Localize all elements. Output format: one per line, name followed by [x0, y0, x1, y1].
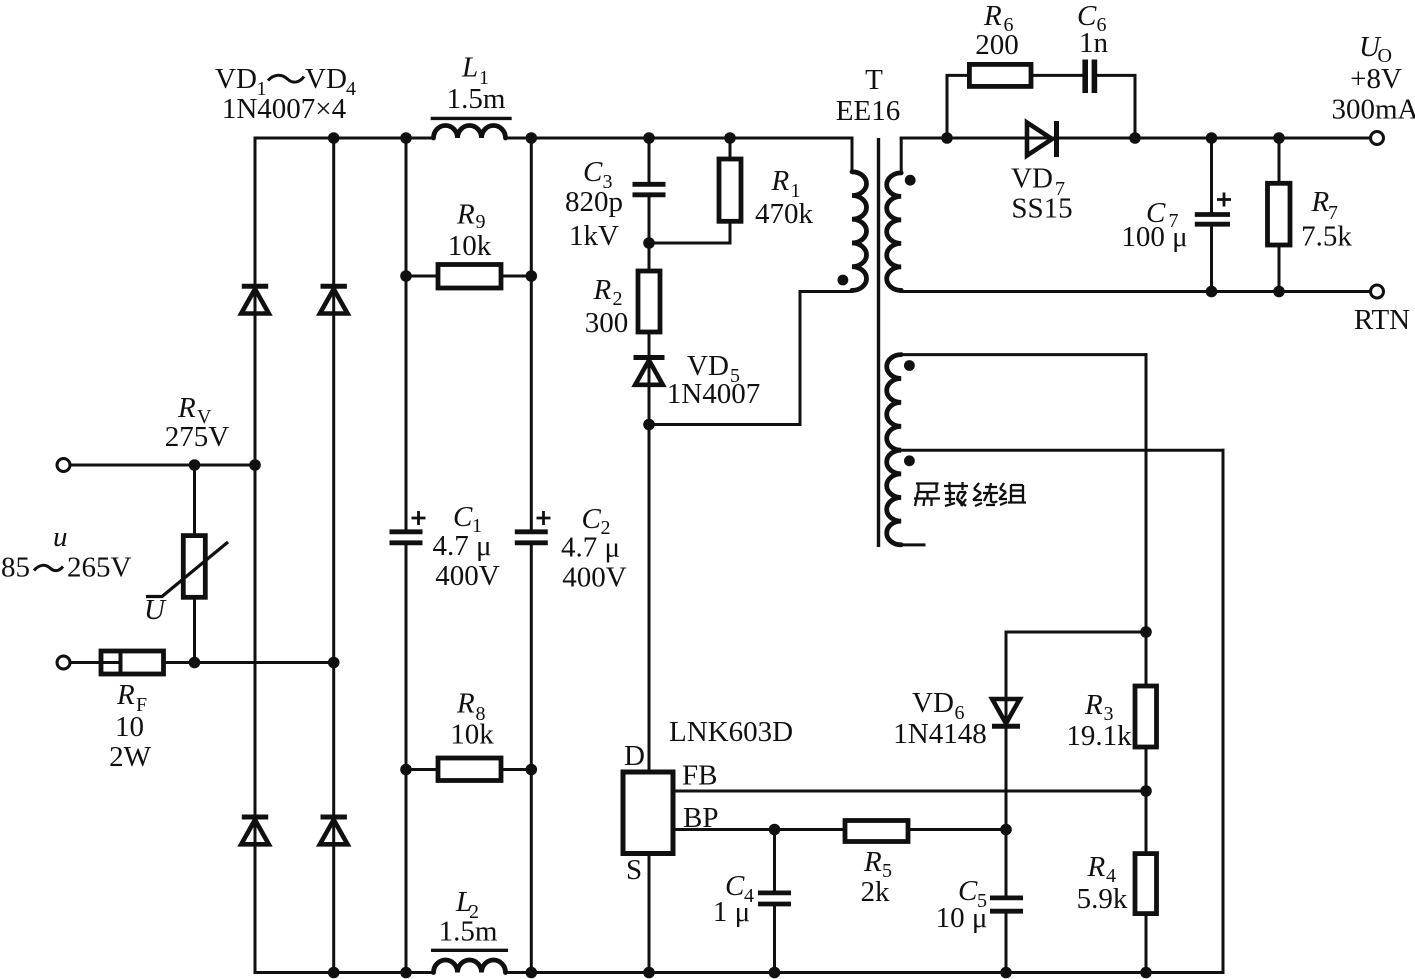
node bottom rail at C2 — [526, 967, 538, 979]
wire top rail right segment into primary lead — [506, 138, 853, 172]
svg-text:U: U — [144, 594, 167, 626]
node C3 R1 junction — [643, 237, 655, 249]
transformer shield upper polarity dot — [904, 360, 915, 371]
wire shield top lead down to node — [1145, 355, 1148, 632]
svg-text:u: u — [53, 521, 68, 553]
resistor R5 body — [845, 821, 908, 842]
wire C7 lower lead — [1210, 225, 1213, 292]
transformer primary polarity dot — [838, 275, 849, 286]
wire R2 through VD5 to clamp node — [648, 332, 651, 425]
wire shield winding bottom tail — [901, 543, 924, 546]
capacitor C2 plates — [515, 532, 548, 543]
wire RTN rail — [901, 290, 1377, 291]
wire node to VD6 branch — [1006, 631, 1146, 634]
svg-text:400V: 400V — [435, 560, 500, 592]
diode VD3 — [242, 815, 268, 820]
fusible resistor RF through lead — [101, 661, 121, 664]
svg-text:470k: 470k — [755, 198, 814, 230]
resistor R9 body — [438, 265, 501, 289]
svg-text:1.5m: 1.5m — [447, 83, 506, 115]
wire R3 upper lead — [1145, 632, 1148, 686]
node AC bottom at RV — [189, 657, 201, 669]
node top rail at R1 — [724, 132, 736, 144]
wire C4 lower lead — [773, 905, 776, 973]
node BP at C4 — [769, 824, 781, 836]
node RTN at R7 — [1273, 286, 1285, 298]
wire R6 to C6 — [1031, 74, 1083, 77]
node R9 right — [526, 270, 538, 282]
capacitor C2 plus sign — [537, 511, 551, 525]
svg-text:4.7 μ: 4.7 μ — [561, 532, 620, 564]
svg-text:300: 300 — [585, 307, 629, 339]
transformer secondary polarity dot — [905, 175, 916, 186]
node AC top at RV — [189, 459, 201, 471]
wire BP net right — [908, 828, 1006, 831]
wire C5 bottom lead — [1005, 912, 1008, 973]
wire snubber R6 left leg — [947, 75, 969, 138]
op-amp U1 LNK603D body — [623, 772, 673, 854]
resistor R2 body — [638, 271, 660, 332]
capacitor C6 plates — [1085, 60, 1094, 94]
wire shield winding top lead — [901, 353, 1146, 356]
terminal output RTN — [1371, 285, 1384, 298]
svg-text:2k: 2k — [861, 876, 891, 908]
wire AC input bottom left — [70, 661, 101, 664]
wire second bridge rail x=334 — [332, 138, 335, 973]
svg-text:FB: FB — [682, 760, 717, 792]
wire bottom rail left segment — [255, 971, 434, 974]
diode VD2 — [321, 284, 347, 289]
diode VD5 — [634, 355, 665, 360]
svg-text:LNK603D: LNK603D — [669, 716, 793, 748]
svg-text:2W: 2W — [109, 741, 152, 773]
wire secondary output rail — [901, 137, 1377, 140]
svg-text:400V: 400V — [562, 562, 627, 594]
wire snubber column C3 top — [648, 138, 651, 184]
node secondary rail at R6 — [941, 132, 953, 144]
resistor R7 body — [1268, 183, 1291, 245]
inductor L1 label underline — [431, 117, 512, 120]
wire R4 lower lead — [1145, 914, 1148, 973]
inductor L2 — [434, 960, 506, 973]
diode VD6 — [992, 699, 1020, 724]
wire C6 right leg — [1094, 75, 1135, 138]
svg-text:1N4007×4: 1N4007×4 — [222, 93, 347, 125]
transformer shield winding — [887, 355, 902, 545]
varistor RV body — [183, 536, 205, 598]
svg-text:4.7 μ: 4.7 μ — [432, 530, 491, 562]
wire R1 top lead — [729, 138, 732, 159]
capacitor C1 plus sign — [412, 511, 426, 525]
svg-text:RTN: RTN — [1354, 304, 1410, 336]
wire VD6 column — [1005, 632, 1008, 898]
wire C3 to R2 — [648, 197, 651, 272]
svg-text:10: 10 — [115, 711, 144, 743]
svg-text:+8V: +8V — [1350, 63, 1402, 95]
resistor R8 body — [438, 758, 501, 781]
transformer T core — [877, 138, 880, 547]
wire top rail left segment — [255, 137, 434, 140]
capacitor C4 plates — [758, 893, 791, 904]
node top rail at C2 — [526, 132, 538, 144]
svg-text:R: R — [177, 392, 196, 424]
svg-text:1N4007: 1N4007 — [667, 378, 760, 410]
wire R4 upper lead — [1145, 791, 1148, 854]
svg-text:R: R — [771, 165, 790, 197]
wire FB net — [673, 790, 1146, 793]
svg-text:R: R — [1087, 851, 1106, 883]
svg-text:R: R — [593, 274, 612, 306]
svg-text:7.5k: 7.5k — [1301, 221, 1352, 253]
svg-text:VD: VD — [1011, 163, 1053, 195]
wire C4 upper lead — [773, 830, 776, 893]
svg-text:1kV: 1kV — [569, 220, 619, 252]
wire clamp node to transformer primary bottom — [649, 290, 852, 424]
svg-text:D: D — [624, 740, 645, 772]
svg-text:R: R — [983, 0, 1002, 32]
svg-text:4: 4 — [346, 78, 356, 100]
wire secondary top lead — [900, 138, 903, 173]
node secondary rail at C7 — [1206, 132, 1218, 144]
node R8 right — [526, 764, 538, 776]
node top rail at C1 — [400, 132, 412, 144]
svg-text:R: R — [456, 199, 475, 231]
terminal AC input top — [57, 459, 70, 472]
node R9 left — [400, 270, 412, 282]
svg-text:SS15: SS15 — [1011, 193, 1072, 225]
svg-text:C: C — [583, 156, 603, 188]
svg-text:10 μ: 10 μ — [936, 902, 988, 934]
svg-text:1N4148: 1N4148 — [893, 718, 986, 750]
svg-text:1.5m: 1.5m — [439, 916, 498, 948]
inductor L1 — [434, 126, 506, 139]
svg-text:BP: BP — [683, 802, 718, 834]
wire R3 lower lead to FB node — [1145, 747, 1148, 791]
wire C3 bottom to R1 bottom — [649, 221, 730, 243]
svg-text:C: C — [582, 503, 602, 535]
svg-text:S: S — [626, 854, 642, 886]
svg-text:VD: VD — [912, 687, 954, 719]
capacitor C7 plus sign — [1217, 193, 1231, 207]
wire clamp node down to LNK drain — [648, 425, 651, 773]
wire C7 upper lead — [1210, 138, 1213, 214]
node AC bottom at bridge — [328, 657, 340, 669]
svg-text:R: R — [1311, 186, 1330, 218]
svg-text:820p: 820p — [565, 186, 623, 218]
capacitor C5 plates — [990, 898, 1023, 911]
svg-text:300mA: 300mA — [1332, 94, 1415, 126]
terminal AC input bottom — [57, 656, 70, 669]
wire R7 lower lead — [1278, 245, 1281, 292]
terminal output UO — [1371, 132, 1384, 145]
transformer shield winding label — [914, 482, 1026, 506]
resistor R1 body — [719, 159, 741, 221]
wire R8 left lead — [406, 768, 438, 771]
svg-text:R: R — [1084, 689, 1103, 721]
wire C1 rail lower — [405, 544, 408, 973]
node bottom rail at LNK source — [643, 967, 655, 979]
node FB junction — [1140, 785, 1152, 797]
node R8 left — [400, 764, 412, 776]
svg-text:5.9k: 5.9k — [1077, 883, 1128, 915]
svg-text:19.1k: 19.1k — [1066, 720, 1132, 752]
wire varistor bottom lead — [193, 597, 196, 663]
node bottom rail at bridge — [328, 967, 340, 979]
fusible resistor RF inner divider — [119, 651, 123, 674]
svg-text:R: R — [116, 679, 135, 711]
wire R9 right lead — [501, 275, 531, 278]
fusible resistor RF body — [101, 651, 164, 674]
capacitor C1 plates — [390, 532, 423, 543]
svg-text:L: L — [461, 52, 478, 84]
node top rail at C3 — [643, 132, 655, 144]
svg-text:10k: 10k — [448, 230, 492, 262]
wire LNK source lead — [648, 854, 651, 973]
svg-text:85: 85 — [1, 552, 30, 584]
diode VD1 — [242, 284, 268, 289]
wire R9 left lead — [406, 275, 438, 278]
node bottom rail at C1 — [400, 967, 412, 979]
svg-text:R: R — [456, 688, 475, 720]
svg-text:275V: 275V — [165, 421, 230, 453]
node RTN at C7 — [1206, 286, 1218, 298]
svg-text:200: 200 — [975, 29, 1019, 61]
transformer shield lower polarity dot — [904, 455, 915, 466]
transformer secondary winding — [887, 173, 902, 291]
svg-text:10k: 10k — [450, 719, 494, 751]
varistor RV diagonal stroke — [146, 542, 228, 597]
svg-text:1n: 1n — [1079, 27, 1109, 59]
capacitor C3 plates — [633, 184, 666, 195]
wire C2 rail upper — [530, 138, 533, 531]
node secondary rail at R7 — [1273, 132, 1285, 144]
diode VD7 — [1027, 123, 1052, 156]
node shield R3 junction — [1140, 626, 1152, 638]
wire varistor top lead — [193, 465, 196, 536]
wire AC input bottom right — [164, 661, 334, 664]
resistor R6 body — [969, 64, 1031, 86]
svg-text:VD: VD — [305, 63, 347, 95]
wire shield tap lead — [901, 449, 1223, 452]
wire R7 upper lead — [1278, 138, 1281, 183]
diode VD4 — [321, 815, 347, 820]
resistor R4 body — [1135, 854, 1157, 914]
inductor L2 label underline — [431, 949, 508, 952]
wire shield tap column x=1223 — [1222, 450, 1225, 972]
svg-text:R: R — [863, 846, 882, 878]
svg-text:100 μ: 100 μ — [1121, 221, 1187, 253]
wire bottom rail right segment — [506, 971, 1224, 974]
wire C2 rail lower — [530, 544, 533, 973]
node top rail at bridge branch — [328, 132, 340, 144]
wire BP net left — [673, 828, 845, 831]
wire C1 rail upper — [405, 138, 408, 531]
node BP at C5 — [1000, 824, 1012, 836]
svg-text:EE16: EE16 — [836, 95, 900, 127]
node AC top at bridge — [249, 459, 261, 471]
transformer primary winding — [852, 172, 867, 291]
wire R8 right lead — [501, 768, 531, 771]
node secondary rail at C6 — [1129, 132, 1141, 144]
node clamp junction — [643, 419, 655, 431]
svg-text:T: T — [865, 64, 883, 96]
svg-text:VD: VD — [215, 63, 257, 95]
node bottom rail at R4 — [1140, 967, 1152, 979]
capacitor C7 plates — [1195, 215, 1230, 225]
node bottom rail at C4 — [769, 967, 781, 979]
node bottom rail at C5 — [1000, 967, 1012, 979]
svg-text:265V: 265V — [67, 552, 132, 584]
svg-text:C: C — [453, 501, 473, 533]
resistor R3 body — [1135, 686, 1157, 747]
wire left bridge rail x=255 — [254, 138, 257, 973]
svg-text:1 μ: 1 μ — [713, 896, 750, 928]
wire AC input top — [70, 464, 255, 467]
